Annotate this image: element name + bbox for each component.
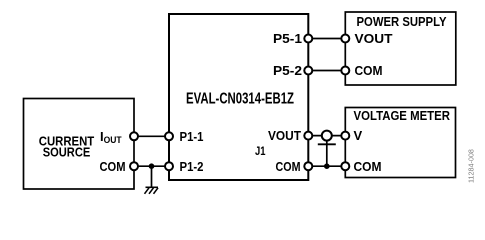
power supply box <box>345 12 456 85</box>
current source box <box>24 99 135 190</box>
terminal VOUT power supply <box>341 35 349 43</box>
terminal J1 VOUT <box>304 132 312 140</box>
svg-text:P5-2: P5-2 <box>273 63 302 78</box>
wire P5-1 to VOUT <box>308 38 345 40</box>
svg-text:J1: J1 <box>255 144 266 158</box>
wire J1 COM to COM <box>308 165 345 167</box>
terminal V meter <box>341 132 349 140</box>
terminal IOUT <box>130 132 138 140</box>
terminal P1-1 <box>165 132 173 140</box>
wire COM to P1-2 <box>134 165 169 167</box>
probe shield bar <box>318 143 336 145</box>
terminal P5-1 <box>304 35 312 43</box>
svg-text:P1-2: P1-2 <box>180 159 204 174</box>
svg-text:VOUT: VOUT <box>355 31 393 46</box>
terminal J1 COM <box>304 162 312 170</box>
svg-text:VOUT: VOUT <box>268 128 301 143</box>
wire J1 VOUT to V <box>308 135 345 137</box>
svg-text:COM: COM <box>100 159 126 174</box>
chassis ground <box>145 187 159 194</box>
terminal COM current source <box>130 162 138 170</box>
svg-text:COM: COM <box>355 63 383 78</box>
terminal COM power supply <box>341 67 349 75</box>
junction dot J1 COM node <box>324 163 330 169</box>
wire IOUT to P1-1 <box>134 135 169 137</box>
svg-text:VOLTAGE METER: VOLTAGE METER <box>354 108 451 123</box>
terminal P5-2 <box>304 67 312 75</box>
wire P5-2 to COM <box>308 70 345 72</box>
probe shield wire <box>326 140 328 166</box>
svg-text:P5-1: P5-1 <box>273 31 302 46</box>
terminal COM meter <box>341 162 349 170</box>
svg-text:COM: COM <box>276 159 301 174</box>
svg-text:V: V <box>354 128 363 143</box>
svg-text:SOURCE: SOURCE <box>43 145 91 160</box>
probe jack circle <box>322 131 332 141</box>
svg-text:EVAL-CN0314-EB1Z: EVAL-CN0314-EB1Z <box>186 91 294 108</box>
eval board box <box>169 14 308 180</box>
junction dot ground node <box>149 163 155 169</box>
svg-text:POWER SUPPLY: POWER SUPPLY <box>357 14 447 29</box>
voltage meter box <box>345 108 455 178</box>
terminal P1-2 <box>165 162 173 170</box>
svg-text:COM: COM <box>354 159 382 174</box>
ground wire <box>151 166 153 187</box>
svg-text:11284-008: 11284-008 <box>467 149 476 183</box>
svg-text:P1-1: P1-1 <box>180 129 204 144</box>
